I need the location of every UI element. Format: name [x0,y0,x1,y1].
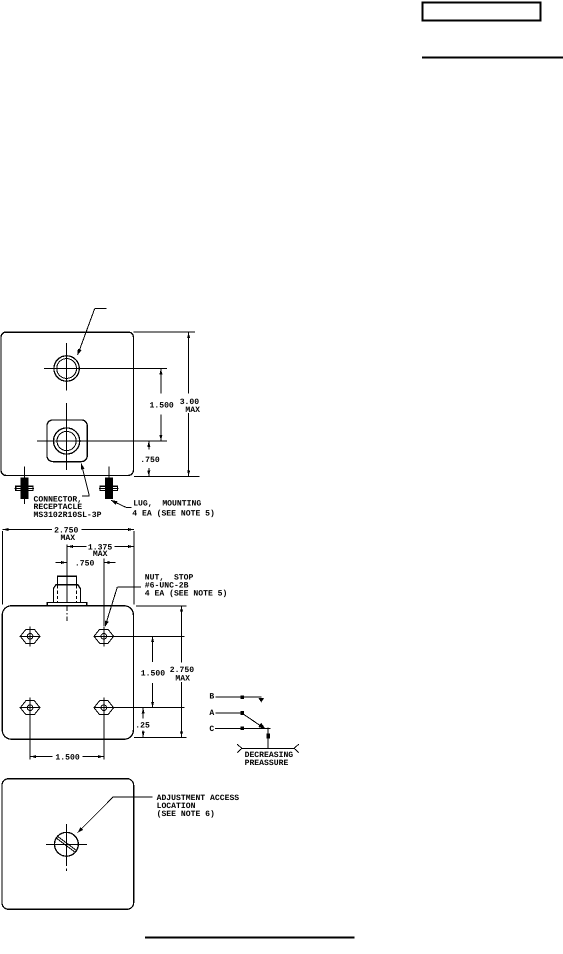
mounting lug left: centerline [23,467,25,478]
leader arrowhead stop nut [105,621,109,627]
schematic axis left chevron [237,744,242,748]
svg-text:LUG, MOUNTING: LUG, MOUNTING [133,500,201,509]
schematic moving contact arrow at B [258,698,264,703]
extension line right [133,531,135,604]
svg-text:MAX: MAX [61,534,76,543]
leader to adjustment access [78,797,114,833]
middle view: connector body [53,585,80,603]
schematic actuation line vertical [267,728,269,749]
top view: lower hole horizontal centerline [37,440,167,442]
top view: connector receptacle rounded square [47,420,87,462]
dim line .25 [142,708,144,719]
svg-text:4 EA (SEE NOTE 5): 4 EA (SEE NOTE 5) [132,509,215,518]
bottom extension line [134,476,200,478]
svg-text:B: B [209,692,214,701]
top view: upper hole outer circle [54,356,79,381]
stop nut bottom-right: circle [101,705,107,711]
stop nut bottom-right: hexagon [94,701,114,715]
top view: vertical centerline lower segment [66,403,68,470]
top extension line [134,331,196,333]
stop nut top-right: horizontal centerline [93,635,184,637]
stop nut top-left: horizontal centerline [20,635,41,637]
middle view: connector flange [47,602,87,605]
extension line bottom right middle view [134,736,187,738]
extension line left [2,531,4,604]
svg-text:1.500: 1.500 [150,401,174,410]
schematic contact line A [216,712,243,714]
leader to mounting lug [111,500,126,507]
middle view: switch body outline [2,606,133,739]
top view: leader arrowhead at upper hole [78,349,82,355]
bottom view: adjustment access hole [55,832,79,856]
top view: switch body outline [1,332,133,475]
bottom view: horizontal centerline [46,843,87,845]
stop nut bottom-right: horizontal centerline [93,707,184,709]
mounting lug left: centerline tail [23,499,25,504]
schematic contact point A [240,711,244,715]
dim line 1.500 top view [160,369,162,394]
top view: leader to upper hole [78,308,95,355]
stop nut top-left: circle [27,634,33,640]
mounting lug right: stud [105,491,113,499]
svg-text:C: C [209,725,214,734]
schematic pressure axis line [242,747,294,749]
mounting lug right: washer midline [99,487,118,489]
svg-text:A: A [209,709,214,718]
dim line 1.500 middle view vertical [152,636,154,662]
dim line 2.750 MAX middle view vertical [181,606,183,663]
dim line .750 top view [148,441,150,450]
bottom view: centerline dash below [65,869,67,872]
svg-text:(SEE NOTE 6): (SEE NOTE 6) [157,810,215,819]
middle view: connector hidden line left [56,586,58,603]
stop nut bottom-left: hexagon [20,701,40,715]
header horizontal rule [422,56,563,58]
schematic contact line C [215,727,270,729]
leader to stop nut [117,586,140,588]
bottom view: vertical centerline [65,824,67,866]
mounting lug right: body [105,477,113,486]
extension line top right middle view [136,605,187,607]
dim line 1.375 MAX [67,546,87,548]
top view: connector outer circle [54,428,80,454]
mounting lug left: nut over washer [20,486,28,490]
stop nut bottom-left: vertical centerline [29,698,31,760]
title block box (empty rectangle top right) [423,3,541,21]
top view: upper hole horizontal centerline [44,368,167,370]
schematic contact point B [240,695,244,699]
leader arrowhead adjustment [78,827,84,833]
svg-text:.25: .25 [135,721,150,730]
leader arrowhead connector [81,464,85,470]
schematic moving arm A to junction [244,714,264,728]
stop nut top-left: vertical centerline [29,626,31,646]
top view: connector inner circle [57,431,76,450]
mounting lug right: nut over washer [105,486,113,490]
bottom view: screw slot line 2 [56,838,75,852]
top view: upper hole inner circle [57,359,77,379]
middle view: connector hidden line right [76,586,78,603]
mounting lug left: washer midline [15,487,34,489]
dim line 1.500 bottom of middle view [30,756,52,758]
mounting lug left: body [20,477,28,486]
schematic actuation square [266,734,270,739]
stop nut top-right: hexagon [94,629,114,643]
svg-text:.750: .750 [140,456,160,465]
middle view: connector centerline [66,545,68,577]
dim line 2.750 MAX horizontal [3,529,52,531]
schematic contact line B [216,696,262,698]
stop nut top-right: vertical centerline [103,626,105,646]
svg-text:.750: .750 [75,559,95,568]
mounting lug left: washer [16,486,33,490]
svg-text:MS3102R10SL-3P: MS3102R10SL-3P [34,511,102,520]
stop nut top-left: hexagon [20,629,40,643]
stop nut bottom-left: circle [27,705,33,711]
leader to connector receptacle [81,464,89,496]
svg-text:PREASSURE: PREASSURE [245,759,289,768]
stop nut top-right: circle [101,634,107,640]
top view: vertical centerline upper segment [66,343,68,391]
schematic axis right chevron [294,744,299,748]
mounting lug right: washer [100,486,117,490]
leader arrowhead lug [111,500,117,504]
svg-text:1.500: 1.500 [55,753,79,762]
svg-text:MAX: MAX [175,674,190,683]
mounting lug left: stud [21,491,29,499]
extension line stop nut centerline [103,559,105,627]
svg-text:MAX: MAX [185,406,200,415]
svg-text:MAX: MAX [93,550,108,559]
footer horizontal rule [145,937,355,939]
middle view: connector cap [57,576,76,585]
schematic contact point C [241,727,245,731]
bottom view: screw slot line 1 [58,836,77,850]
middle view: centerline dash-dot below top edge [66,606,68,621]
svg-text:4 EA (SEE NOTE 5): 4 EA (SEE NOTE 5) [145,589,228,598]
stop nut bottom-right: vertical centerline [103,698,105,760]
stop nut bottom-left: horizontal centerline [20,707,41,709]
schematic arm arrowhead [258,723,265,729]
dim line .750 middle view [56,562,68,564]
svg-text:1.500: 1.500 [141,669,165,678]
dim line 3.00 MAX top view [188,332,190,393]
bottom view: switch body outline [2,779,134,910]
mounting lug right: centerline [108,467,110,478]
